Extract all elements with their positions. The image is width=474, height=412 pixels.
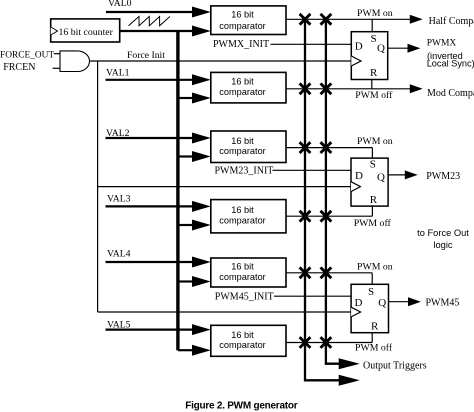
svg-text:comparator: comparator — [219, 272, 265, 282]
svg-text:D: D — [355, 297, 363, 309]
svg-text:Q: Q — [377, 171, 385, 183]
svg-text:Force Init: Force Init — [127, 50, 165, 61]
svg-text:comparator: comparator — [219, 216, 265, 226]
svg-text:FORCE_OUT: FORCE_OUT — [0, 51, 54, 61]
svg-text:Local Sync): Local Sync) — [427, 58, 474, 68]
svg-text:VAL5: VAL5 — [107, 320, 131, 331]
svg-text:16 bit counter: 16 bit counter — [59, 27, 114, 38]
svg-text:PWM23: PWM23 — [426, 171, 460, 182]
svg-text:comparator: comparator — [219, 340, 265, 350]
svg-text:D: D — [355, 41, 363, 53]
svg-text:comparator: comparator — [219, 21, 265, 31]
svg-text:S: S — [371, 33, 377, 45]
svg-text:PWMX_INIT: PWMX_INIT — [213, 39, 269, 50]
svg-text:R: R — [371, 320, 379, 332]
svg-text:PWM off: PWM off — [355, 90, 393, 101]
svg-text:FRCEN: FRCEN — [3, 62, 35, 73]
svg-text:to Force Out: to Force Out — [417, 228, 469, 238]
svg-text:16 bit: 16 bit — [231, 330, 254, 340]
svg-text:VAL0: VAL0 — [108, 0, 132, 9]
svg-text:VAL4: VAL4 — [107, 249, 131, 260]
svg-text:Figure 2. PWM generator: Figure 2. PWM generator — [185, 400, 297, 411]
svg-text:PWM on: PWM on — [357, 136, 393, 147]
svg-text:Mod Compare: Mod Compare — [427, 88, 474, 99]
svg-text:16 bit: 16 bit — [231, 136, 254, 146]
svg-text:Half Compare: Half Compare — [429, 16, 474, 27]
svg-text:R: R — [370, 67, 378, 79]
svg-text:PWM45_INIT: PWM45_INIT — [215, 292, 274, 303]
svg-text:16 bit: 16 bit — [231, 77, 254, 87]
svg-text:PWM on: PWM on — [357, 8, 393, 19]
svg-text:VAL2: VAL2 — [106, 128, 130, 139]
svg-text:PWMX: PWMX — [427, 38, 457, 48]
svg-text:D: D — [355, 170, 363, 182]
svg-text:VAL3: VAL3 — [107, 193, 131, 204]
svg-text:PWM45: PWM45 — [426, 298, 460, 309]
svg-text:VAL1: VAL1 — [106, 67, 130, 78]
svg-text:Output Triggers: Output Triggers — [363, 361, 427, 372]
svg-text:logic: logic — [433, 240, 452, 250]
svg-text:PWM23_INIT: PWM23_INIT — [215, 165, 274, 176]
svg-text:comparator: comparator — [219, 87, 265, 97]
svg-text:PWM off: PWM off — [355, 343, 393, 354]
svg-text:S: S — [370, 158, 376, 170]
svg-text:Q: Q — [378, 297, 386, 309]
svg-text:16 bit: 16 bit — [231, 262, 254, 272]
svg-text:16 bit: 16 bit — [231, 205, 254, 215]
svg-text:S: S — [368, 286, 374, 298]
svg-text:R: R — [370, 194, 378, 206]
svg-text:comparator: comparator — [219, 146, 265, 156]
svg-text:PWM off: PWM off — [354, 218, 392, 229]
svg-text:16 bit: 16 bit — [231, 10, 254, 20]
svg-text:PWM on: PWM on — [357, 262, 393, 273]
svg-text:Q: Q — [377, 43, 385, 55]
